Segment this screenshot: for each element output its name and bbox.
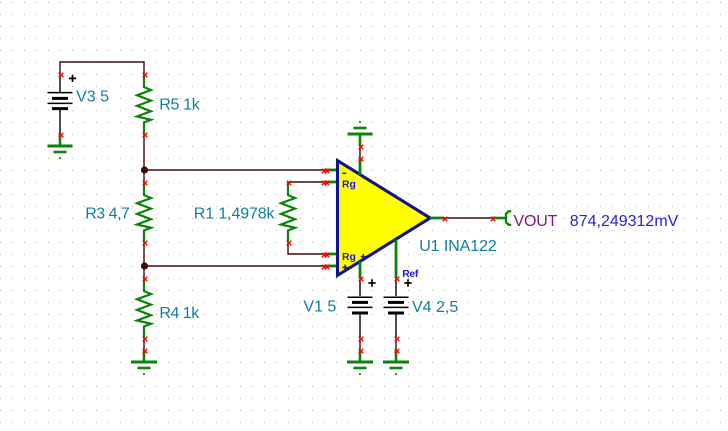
U1 minus input marker xyxy=(342,172,346,174)
wire from V3 top to R5 top xyxy=(60,62,144,74)
resistor R1 xyxy=(281,183,295,242)
svg-text:Ref: Ref xyxy=(402,269,419,280)
terminal x at U1 plus input xyxy=(322,265,330,270)
ground below V1 xyxy=(347,350,373,375)
terminal x at R3 top xyxy=(143,181,148,186)
wire V1 bottom to ground xyxy=(359,338,361,350)
svg-text:VOUT: VOUT xyxy=(514,213,558,230)
junction node A dot xyxy=(141,166,148,173)
battery V4 plus polarity mark xyxy=(404,279,411,286)
svg-text:Rg: Rg xyxy=(342,252,356,263)
wire R4 bottom to ground xyxy=(143,338,145,350)
terminal x at V1 top xyxy=(359,277,364,282)
terminal x at VOUT pin xyxy=(491,217,496,222)
wire R3 bottom to node B xyxy=(143,242,145,266)
terminal x at ground below R4 xyxy=(143,349,148,354)
wire R1 bottom to U1 Rg2 pin xyxy=(288,242,324,254)
terminal x at R4 top xyxy=(143,277,148,282)
svg-text:V1 5: V1 5 xyxy=(303,299,336,316)
wire U1 output to VOUT pin xyxy=(444,217,492,219)
label VOUT net name xyxy=(514,213,558,230)
resistor R4 xyxy=(137,279,151,338)
terminal x at R1 bottom xyxy=(287,241,292,246)
battery V3 xyxy=(48,74,73,134)
wire node A to U1 minus input xyxy=(144,169,324,171)
terminal x at R5 bottom xyxy=(143,133,148,138)
label V4 value xyxy=(412,299,458,316)
resistor R3 xyxy=(137,183,151,242)
terminal x at U1 minus input xyxy=(322,169,330,174)
wire V4 bottom to ground xyxy=(395,338,397,350)
op-amp U1 input pin stubs xyxy=(324,170,337,266)
terminal x at V4 bottom xyxy=(395,337,400,342)
terminal x at V3 bottom / ground xyxy=(59,133,64,138)
svg-text:V3 5: V3 5 xyxy=(76,88,109,105)
terminal x at U1 output xyxy=(443,217,448,222)
op-amp U1 V+ supply pin stub xyxy=(359,158,362,175)
svg-text:874,249312mV: 874,249312mV xyxy=(570,213,679,230)
wire node B to R4 top xyxy=(143,266,145,278)
svg-text:V4 2,5: V4 2,5 xyxy=(412,299,458,316)
VOUT output pin symbol xyxy=(492,211,511,225)
battery V3 plus polarity mark xyxy=(69,75,76,82)
label U1 INA122 xyxy=(419,238,497,255)
op-amp U1 Ref pin stub xyxy=(395,240,398,279)
op-amp U1 triangle body xyxy=(338,161,431,276)
battery V1 plus polarity mark xyxy=(368,279,375,286)
svg-text:R5 1k: R5 1k xyxy=(159,97,201,114)
wire R1 top to U1 Rg1 pin xyxy=(288,181,324,183)
op-amp U1 output pin stub xyxy=(430,217,444,220)
terminal x at R4 bottom xyxy=(143,337,148,342)
ground below V4 xyxy=(383,350,409,375)
U1 pin label Rg (top) xyxy=(342,179,356,190)
terminal x at R1 top xyxy=(287,181,292,186)
U1 pin label Rg (bottom) xyxy=(342,252,356,263)
svg-text:R3 4,7: R3 4,7 xyxy=(85,206,130,223)
U1 plus marker beside Rg bottom xyxy=(361,254,366,259)
label R1 value xyxy=(194,206,276,223)
U1 pin label Ref xyxy=(402,269,419,280)
wire node A to R3 top xyxy=(143,170,145,182)
wire top ground to U1 V+ pin xyxy=(359,146,361,158)
wire node B to U1 plus input xyxy=(144,265,324,267)
label V1 value xyxy=(303,299,336,316)
junction node B dot xyxy=(141,262,148,269)
terminal x at top ground pin xyxy=(359,145,364,150)
ground below V3 xyxy=(48,134,73,159)
ground below R4 xyxy=(131,350,157,375)
op-amp U1 V- supply pin stub xyxy=(359,262,362,279)
terminal x at R3 bottom xyxy=(143,241,148,246)
label V3 value xyxy=(76,88,109,105)
terminal x at V1 bottom xyxy=(359,337,364,342)
battery V4 xyxy=(384,278,409,338)
label VOUT measured value xyxy=(570,213,679,230)
label R3 value xyxy=(85,206,130,223)
ground above U1 (inverted) xyxy=(348,121,373,146)
wire R5 bottom to node A xyxy=(143,134,145,170)
svg-text:Rg: Rg xyxy=(342,179,356,190)
terminal x at ground below V4 xyxy=(395,349,400,354)
label R4 value xyxy=(159,305,200,322)
resistor R5 xyxy=(137,75,151,134)
terminal x at R5 top xyxy=(143,73,148,78)
U1 plus input marker xyxy=(342,265,348,271)
terminal x at U1 V+ pin xyxy=(359,157,364,162)
svg-text:R4 1k: R4 1k xyxy=(159,305,200,322)
terminal x at U1 Rg1 pin xyxy=(322,181,330,186)
svg-text:U1 INA122: U1 INA122 xyxy=(419,238,497,255)
terminal x at V3 top xyxy=(59,73,64,78)
svg-text:R1 1,4978k: R1 1,4978k xyxy=(194,206,276,223)
battery V1 xyxy=(348,278,373,338)
terminal x at ground below V1 xyxy=(359,349,364,354)
terminal x at U1 Rg2 pin xyxy=(322,253,330,258)
terminal x at V4 top xyxy=(395,277,400,282)
label R5 value xyxy=(159,97,201,114)
